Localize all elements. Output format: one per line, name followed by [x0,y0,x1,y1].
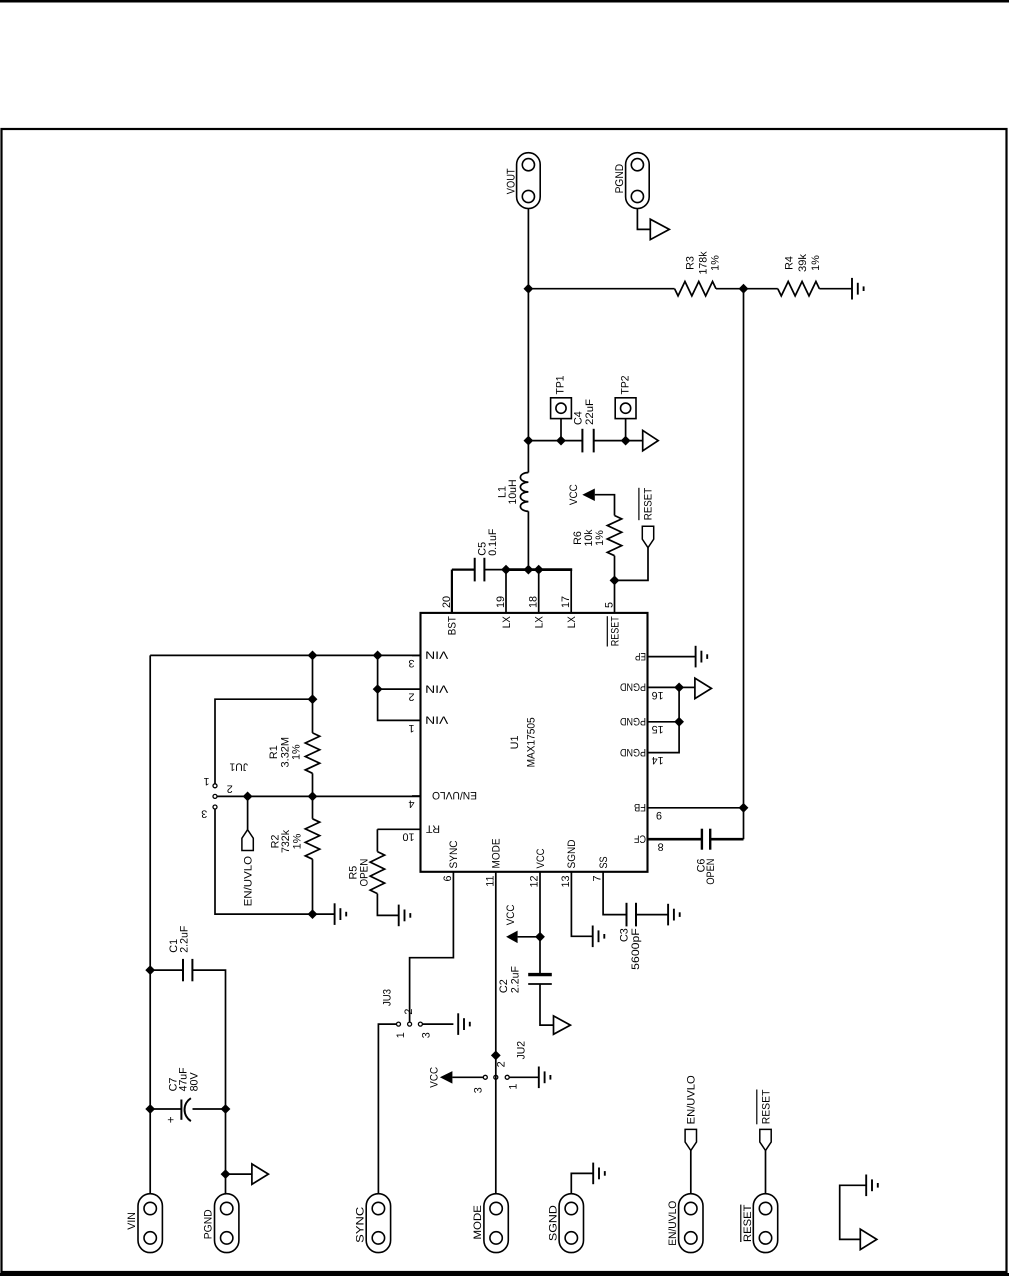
svg-text:VIN: VIN [425,649,448,661]
SGND connector ground wire [571,1173,593,1193]
svg-text:BST: BST [447,616,459,635]
svg-text:10uH: 10uH [507,480,519,505]
pin 14 PGND stub wire [648,722,680,753]
EN/UVLO connector flag symbol [685,1129,696,1150]
ground at EP [696,646,708,668]
EN/UVLO connector wire [690,1151,692,1194]
svg-text:CF: CF [634,832,646,844]
resistor R2 [305,819,319,859]
svg-text:R3: R3 [685,256,697,270]
wire L1 left lead [527,511,529,569]
wire R4 to ground [819,288,852,290]
svg-text:9: 9 [656,809,662,821]
svg-text:VCC: VCC [568,484,580,505]
svg-text:C2: C2 [498,979,510,993]
pin 11 MODE stub wire [495,872,497,1056]
svg-text:1%: 1% [291,744,303,760]
pin 4 EN/UVLO stub wire [412,795,421,797]
junction FB stub [739,803,749,813]
VIN rail vertical wire [150,654,420,656]
pin 19 LX stub wire [505,570,507,613]
wire C6 to FB rail [710,838,743,841]
top page edge bar [0,0,1009,3]
svg-text:1%: 1% [810,255,822,271]
corner ground symbol [866,1175,878,1197]
jumper JU1 pin2 circle [213,794,217,798]
svg-text:0.1uF: 0.1uF [487,528,499,555]
resistor R3 [675,282,716,296]
junction FB divider [739,284,749,294]
junction VIN pin2 tie [373,684,383,694]
svg-text:13: 13 [560,876,572,888]
wire R2 to ground branch [312,859,314,914]
svg-text:12: 12 [529,876,541,888]
ground at R5 [399,905,411,927]
ground at JU2 [539,1067,551,1089]
pin EP stub wire [648,656,696,658]
RESET connector label overline [740,1205,742,1242]
pin 7 SS stub wire [603,872,626,915]
RESET connector wire [765,1151,767,1194]
svg-text:8: 8 [658,841,664,853]
svg-text:JU1: JU1 [230,761,249,773]
junction LX bus top [501,565,511,575]
jumper JU2 pin3 circle [483,1075,487,1079]
RESET flag symbol [642,526,653,548]
PGND top triangle symbol [650,219,669,239]
svg-text:RESET: RESET [742,1204,754,1242]
pin 6 SYNC stub wire [410,872,454,1022]
VCC branch wire up [518,936,540,938]
pin 20 BST stub wire [451,570,453,613]
junction C4 branch [524,436,534,446]
JU3 pin3 ground wire [422,1023,453,1025]
svg-text:PGND: PGND [620,715,646,727]
svg-text:1%: 1% [594,530,606,546]
svg-text:PGND: PGND [614,164,626,194]
resistor R4 [778,282,820,296]
resistor R3 upper lead wire [528,288,674,290]
VOUT connector [517,153,541,209]
IC U1 MAX17505 body [421,613,648,872]
wire RESET junction to R6 [614,556,616,581]
junction C7 top [145,1104,155,1114]
jumper JU2 pin2 circle [494,1075,498,1079]
svg-text:SYNC: SYNC [448,840,460,868]
svg-text:7: 7 [592,876,604,882]
svg-text:OPEN: OPEN [705,859,717,885]
test point TP2 [615,398,636,419]
pin 3 VIN stub (on rail) [412,654,421,656]
PGND top connector [626,153,650,209]
svg-text:+: + [166,1116,178,1123]
pin 5 RESET stub wire [614,580,616,613]
jumper JU2 pin1 circle [505,1075,509,1079]
PGND triangle symbol [695,678,712,698]
wire C3 to ground [636,914,668,916]
TP2 stub wire [625,419,627,441]
VIN tie wire to rail [377,655,379,689]
C1 branch wires [150,969,183,971]
svg-text:EN/UVLO: EN/UVLO [432,789,477,801]
SGND connector [559,1194,583,1253]
svg-text:VIN: VIN [425,714,448,726]
junction JU1 pin1 to R1 rail [308,694,318,704]
junction VCC branch [535,932,545,942]
svg-text:PGND: PGND [620,746,646,758]
input PGND triangle symbol [252,1164,269,1184]
ground at SGND connector [593,1163,605,1185]
EN/UVLO connector [679,1194,703,1253]
VIN rail horizontal wire [149,655,151,1194]
jumper JU3 pin3 circle [418,1022,422,1026]
svg-text:178k: 178k [697,251,709,275]
svg-text:17: 17 [560,596,572,608]
RESET flag label overline [638,488,640,520]
ground at C3 [668,904,680,926]
svg-text:JU3: JU3 [382,989,394,1006]
svg-text:RESET: RESET [760,1089,772,1124]
pin 1 VIN stub wire [378,689,421,720]
svg-text:3: 3 [201,808,207,820]
junction PGND 16 [674,683,684,693]
svg-text:5600pF: 5600pF [630,928,642,970]
svg-text:2: 2 [227,783,233,795]
svg-text:1: 1 [408,722,414,734]
svg-text:MODE: MODE [491,839,503,869]
EN/UVLO net wire [217,795,421,797]
resistor R6 [607,516,621,556]
svg-text:1%: 1% [709,255,721,271]
capacitor C3 [627,903,637,927]
C2 triangle ground symbol [554,1016,571,1034]
svg-text:5: 5 [604,602,616,608]
pin CF stub wire [648,838,702,841]
svg-text:20: 20 [441,596,453,608]
ground at R2 branch [335,903,347,925]
junction R3 branch [524,284,534,294]
wire R5 to ground [377,894,398,916]
RESET connector [753,1194,777,1253]
svg-text:JU2: JU2 [515,1041,527,1060]
SYNC connector [366,1194,390,1253]
capacitor C6 [702,829,710,850]
svg-text:PGND: PGND [203,1209,215,1239]
capacitor C5 [475,558,485,582]
svg-text:16: 16 [652,689,664,701]
pin 13 SGND stub wire [571,872,592,937]
svg-text:SGND: SGND [566,839,578,868]
svg-text:1: 1 [203,775,209,787]
junction C1 top [145,965,155,975]
svg-text:SYNC: SYNC [354,1207,366,1243]
PGND bus wire [678,687,680,721]
jumper JU1 pin3 circle [213,805,217,809]
svg-text:11: 11 [484,876,496,887]
capacitor C1 [183,959,192,981]
svg-text:2: 2 [408,691,414,703]
svg-text:OPEN: OPEN [359,859,371,887]
svg-text:19: 19 [495,596,507,608]
svg-text:VCC: VCC [429,1067,441,1088]
svg-text:EN/UVLO: EN/UVLO [686,1075,698,1124]
wire junction to R2 [312,796,314,818]
svg-text:VOUT: VOUT [505,168,517,194]
wire PGND branch to triangle [226,1173,252,1175]
wire R3 to junction [716,288,778,290]
C4 branch wire lower [594,440,643,442]
svg-text:LX: LX [534,616,546,628]
junction EN/UVLO flag [243,792,253,802]
jumper JU1 pin1 circle [213,784,217,788]
svg-text:C3: C3 [619,928,631,942]
VCC arrow at R6 [582,489,595,502]
pin 10 RT stub wire [377,828,420,830]
svg-text:U1: U1 [509,735,521,749]
C4 triangle ground symbol [643,430,659,450]
capacitor C4 [582,429,593,453]
svg-text:PGND: PGND [620,681,646,693]
junction JU2 [491,1051,501,1061]
junction C7 bottom [221,1104,231,1114]
inductor L1 [520,472,528,511]
ground at R4 [852,278,864,300]
svg-text:EN/UVLO: EN/UVLO [667,1201,679,1246]
svg-text:TP2: TP2 [620,376,632,395]
bottom page edge bar [0,1273,1009,1276]
junction RESET pin [610,576,620,586]
svg-text:1%: 1% [291,833,303,849]
C4 branch wire upper [528,440,582,442]
svg-text:3: 3 [408,657,414,669]
svg-text:14: 14 [652,754,664,766]
junction EN/UVLO divider [308,792,318,802]
RESET connector flag symbol [760,1129,771,1150]
JU1 pin3 wire [215,809,335,914]
junction LX bus pin18 [534,565,544,575]
VIN connector [138,1194,162,1253]
svg-text:1: 1 [507,1084,519,1090]
svg-text:VIN: VIN [126,1212,138,1230]
svg-text:C4: C4 [573,411,585,425]
ground at SGND pin [593,926,605,948]
wire C2 to triangle [540,984,554,1025]
svg-text:2.2uF: 2.2uF [178,925,190,952]
wire to EN/UVLO flag [247,796,249,829]
jumper JU3 pin2 circle [408,1022,412,1026]
svg-text:732k: 732k [280,829,292,853]
jumper JU3 pin1 circle [397,1022,401,1026]
svg-text:2: 2 [495,1061,507,1067]
svg-text:VCC: VCC [535,848,547,868]
ground at JU3 [458,1013,470,1035]
junction TP2 [621,436,631,446]
svg-text:10: 10 [402,831,414,843]
junction VIN rail tie [373,651,383,661]
svg-text:SS: SS [598,857,610,869]
svg-text:VCC: VCC [505,904,517,925]
svg-text:18: 18 [528,596,540,608]
svg-text:3: 3 [420,1032,432,1038]
svg-text:1: 1 [395,1032,407,1038]
VOUT rail wire [527,209,529,473]
pin 2 VIN stub wire [378,688,421,690]
PGND input connector [215,1194,239,1253]
pin 18 LX stub wire [538,570,540,613]
pin 12 VCC stub wire [539,872,541,937]
svg-text:RESET: RESET [642,487,654,520]
resistor R5 [370,852,384,894]
svg-text:RESET: RESET [609,616,621,646]
PGND-GND tie wire [840,1185,867,1239]
JU2 pin3 wire to VCC [452,1076,483,1078]
JU2 pin1 wire to ground [509,1076,539,1078]
pin 16 PGND stub wire [648,686,680,688]
svg-text:VIN: VIN [425,682,448,694]
test point TP1 [551,398,572,419]
JU1 pin1 wire [215,699,313,784]
svg-text:6: 6 [442,876,454,882]
RT wire to R5 [376,829,378,851]
svg-text:15: 15 [652,723,664,735]
EN/UVLO flag symbol [242,830,253,851]
svg-text:MAX17505: MAX17505 [526,717,538,767]
MODE connector [484,1194,508,1253]
wire R1 to junction [312,773,314,796]
C7 branch wires [150,1108,181,1110]
svg-text:3: 3 [473,1087,485,1093]
PGND top connector wire [637,209,650,230]
svg-text:39k: 39k [797,253,809,272]
junction PGND 15 [674,717,684,727]
wire VCC junction to C2 [539,937,541,975]
corner triangle symbol [860,1229,877,1249]
pin 17 LX stub wire [570,570,572,613]
FB rail wire [743,289,745,840]
RESET flag2 label overline [756,1090,758,1125]
wire R6 to VCC arrow [595,495,615,516]
svg-text:LX: LX [501,616,513,628]
VCC arrow at JU2 [440,1071,453,1084]
svg-text:22uF: 22uF [584,399,596,425]
junction R1 rail [308,651,318,661]
svg-text:MODE: MODE [472,1205,484,1239]
junction R2 ground branch [308,909,318,919]
svg-text:2.2uF: 2.2uF [510,966,522,993]
svg-text:4: 4 [408,797,414,809]
capacitor C2 [528,975,552,984]
svg-text:80V: 80V [188,1072,200,1092]
wire RESET junction to flag [615,548,649,581]
svg-text:EN/UVLO: EN/UVLO [243,856,255,907]
svg-text:R1: R1 [268,745,280,759]
svg-text:2: 2 [403,1009,415,1015]
svg-text:SGND: SGND [547,1205,559,1241]
wire rail to R1 [312,655,314,733]
resistor R1 [305,733,319,773]
MODE net wire [495,1055,497,1193]
pin RESET name overline [606,616,608,646]
capacitor C7 polarized [181,1098,191,1121]
svg-text:EP: EP [635,650,646,662]
svg-text:RT: RT [426,823,440,835]
pin 15 PGND stub wire [648,721,680,723]
wire C5 to LX bus [484,569,506,571]
LX bus wire [505,568,573,571]
pin 9 FB stub wire [648,807,744,809]
svg-text:FB: FB [634,801,646,813]
junction TP1 [556,436,566,446]
junction LX bus L1 [524,565,534,575]
wire PGND to triangle [679,686,695,688]
svg-text:LX: LX [566,616,578,628]
svg-text:TP1: TP1 [554,376,566,395]
VCC arrow at pin12 [506,931,517,944]
JU3 pin1 wire to SYNC connector [378,1024,396,1194]
svg-text:R4: R4 [784,256,796,270]
junction PGND triangle branch [221,1169,231,1179]
TP1 stub wire [560,419,562,441]
